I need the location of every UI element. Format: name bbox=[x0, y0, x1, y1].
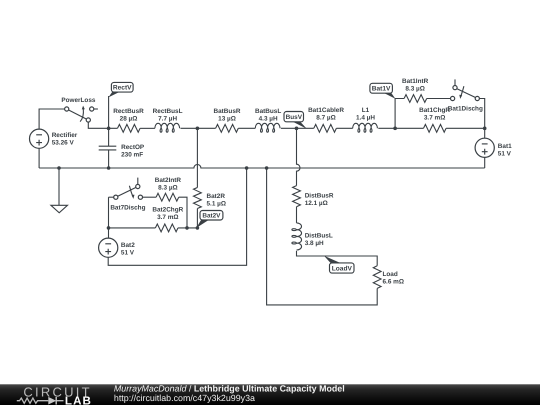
switch Bat7Dischg bbox=[109, 178, 146, 212]
footer url text bbox=[114, 393, 255, 403]
voltage source Rectifier 53.26 V bbox=[29, 129, 77, 148]
wire DistBus branch with hop over bus bbox=[297, 128, 301, 185]
wire Bat2 node down to Bat2 bbox=[108, 228, 110, 238]
svg-text:51 V: 51 V bbox=[121, 250, 135, 257]
CircuitLab logo wordmark bbox=[23, 384, 92, 405]
svg-text:BusV: BusV bbox=[286, 114, 303, 121]
probe flag LoadV bbox=[324, 256, 354, 273]
svg-text:28 µΩ: 28 µΩ bbox=[120, 116, 138, 123]
svg-text:Bat1IntR: Bat1IntR bbox=[402, 78, 429, 85]
svg-text:LoadV: LoadV bbox=[332, 265, 353, 272]
wire rectifier bottom to ground bus bbox=[38, 148, 40, 168]
voltage source Bat1 51 V bbox=[475, 138, 512, 157]
svg-text:Bat2V: Bat2V bbox=[202, 213, 221, 220]
resistor Bat1IntR 8.3 µΩ bbox=[402, 78, 429, 102]
node junctions on Bat2 charge row bbox=[107, 226, 200, 230]
wire rectifier top to PowerLoss bbox=[39, 109, 65, 129]
switch PowerLoss bbox=[61, 97, 98, 122]
svg-text:6.6 mΩ: 6.6 mΩ bbox=[383, 279, 404, 286]
wire Bat1Dischg to Bat1 node bbox=[479, 99, 484, 129]
resistor BatBusR 13 µΩ bbox=[214, 108, 241, 132]
svg-text:Bat1ChgR: Bat1ChgR bbox=[419, 107, 450, 114]
wire up to Bat1IntR row bbox=[395, 99, 404, 129]
node junction Bat1 top bbox=[483, 127, 487, 131]
node junction BusV / DistBusR top bbox=[295, 127, 299, 131]
probe flag RectV bbox=[108, 82, 133, 128]
svg-text:51 V: 51 V bbox=[498, 150, 512, 157]
wire Bat2 bottom loop to bus bbox=[108, 168, 246, 265]
resistor Bat2R 5.1 µΩ vertical bbox=[194, 128, 226, 228]
svg-text:Bat7Dischg: Bat7Dischg bbox=[110, 205, 145, 212]
wire Bat7Dischg left down to Bat2 node bbox=[108, 197, 110, 228]
svg-text:Bat2R: Bat2R bbox=[207, 193, 226, 200]
svg-text:PowerLoss: PowerLoss bbox=[61, 97, 96, 104]
wire RectBusL to Bat2R node bbox=[181, 127, 216, 129]
svg-text:Load: Load bbox=[383, 271, 398, 278]
wire Load bottom loop to bus bbox=[267, 168, 378, 305]
svg-text:BatBusL: BatBusL bbox=[255, 108, 281, 115]
wire Bat1ChgR to Bat1 bbox=[446, 127, 485, 129]
probe flag BusV bbox=[284, 112, 307, 129]
svg-text:Bat1V: Bat1V bbox=[372, 86, 391, 93]
svg-text:5.1 µΩ: 5.1 µΩ bbox=[207, 200, 226, 207]
node junction Bat1 branch bbox=[393, 127, 397, 131]
svg-text:7.7 µH: 7.7 µH bbox=[158, 116, 177, 123]
svg-text:RectOP: RectOP bbox=[121, 144, 145, 151]
capacitor RectOP 230 mF bbox=[99, 128, 145, 168]
svg-text:L1: L1 bbox=[362, 107, 370, 114]
voltage source Bat2 51 V bbox=[99, 238, 136, 257]
resistor RectBusR 28 µΩ bbox=[113, 108, 144, 132]
inductor RectBusL 7.7 µH bbox=[153, 108, 183, 132]
svg-text:RectBusL: RectBusL bbox=[153, 108, 183, 115]
svg-text:Bat2ChgR: Bat2ChgR bbox=[152, 207, 183, 214]
svg-text:BatBusR: BatBusR bbox=[214, 108, 241, 115]
ground bus wire with hop over Bat2R bbox=[39, 165, 485, 168]
svg-text:DistBusR: DistBusR bbox=[305, 192, 334, 199]
svg-text:Bat1CableR: Bat1CableR bbox=[308, 107, 344, 114]
resistor Bat2IntR 8.3 µΩ bbox=[143, 177, 188, 228]
node junction capacitor on bus bbox=[107, 166, 111, 170]
svg-text:230 mF: 230 mF bbox=[121, 152, 143, 159]
switch Bat1Dischg bbox=[448, 79, 483, 112]
wire BatBusL to BusV node bbox=[281, 127, 314, 129]
wire PowerLoss to main node bbox=[88, 122, 117, 128]
resistor Bat1CableR 8.7 µΩ bbox=[308, 107, 344, 132]
wire DistBusL to Load bbox=[297, 251, 378, 266]
node junction Bat2 loop on bus bbox=[245, 166, 249, 170]
svg-text:http://circuitlab.com/c47y3k2u: http://circuitlab.com/c47y3k2u99y3a bbox=[114, 393, 255, 403]
node junction RectV/cap on main line bbox=[107, 127, 111, 131]
svg-text:RectV: RectV bbox=[113, 85, 132, 92]
svg-text:Bat2: Bat2 bbox=[121, 242, 135, 249]
svg-text:8.7 µΩ: 8.7 µΩ bbox=[316, 115, 335, 122]
svg-text:Bat2IntR: Bat2IntR bbox=[155, 177, 182, 184]
node junction Load loop on bus bbox=[265, 166, 269, 170]
wire BatBusR to BatBusL bbox=[238, 127, 255, 129]
wire node to Bat1 bbox=[484, 128, 486, 138]
svg-text:Bat1Dischg: Bat1Dischg bbox=[448, 106, 483, 113]
svg-text:8.3 µΩ: 8.3 µΩ bbox=[158, 185, 177, 192]
svg-text:3.7 mΩ: 3.7 mΩ bbox=[157, 214, 178, 221]
CircuitLab logo resistor-diode glyph bbox=[17, 397, 64, 405]
svg-text:DistBusL: DistBusL bbox=[305, 232, 333, 239]
resistor Bat2ChgR 3.7 mΩ bbox=[109, 207, 198, 232]
footer author / title text bbox=[114, 384, 345, 394]
svg-text:4.3 µH: 4.3 µH bbox=[259, 116, 278, 123]
svg-text:Rectifier: Rectifier bbox=[52, 132, 78, 139]
probe flag Bat2V bbox=[196, 211, 223, 229]
resistor Load 6.6 mΩ vertical bbox=[373, 266, 404, 289]
svg-text:RectBusR: RectBusR bbox=[113, 108, 144, 115]
node junction ground tap bbox=[57, 166, 61, 170]
svg-text:3.8 µH: 3.8 µH bbox=[305, 240, 324, 247]
svg-text:Bat1: Bat1 bbox=[498, 143, 512, 150]
resistor DistBusR 12.1 µΩ vertical bbox=[293, 186, 334, 223]
inductor BatBusL 4.3 µH bbox=[255, 108, 281, 132]
probe flag Bat1V bbox=[370, 83, 396, 99]
inductor DistBusL 3.8 µH vertical bbox=[292, 223, 333, 250]
svg-text:LAB: LAB bbox=[65, 395, 92, 405]
wire RectBusR to RectBusL bbox=[140, 127, 155, 129]
svg-text:1.4 µH: 1.4 µH bbox=[356, 115, 375, 122]
wire Bat1IntR to Bat1Dischg bbox=[427, 98, 451, 100]
svg-text:3.7 mΩ: 3.7 mΩ bbox=[424, 115, 445, 122]
svg-text:53.26 V: 53.26 V bbox=[52, 140, 75, 147]
svg-text:13 µΩ: 13 µΩ bbox=[218, 116, 236, 123]
footer bar bbox=[0, 384, 540, 405]
svg-text:8.3 µΩ: 8.3 µΩ bbox=[405, 86, 424, 93]
resistor Bat1ChgR 3.7 mΩ bbox=[419, 107, 450, 132]
ground symbol bbox=[51, 205, 68, 213]
wire to ground bbox=[58, 168, 60, 205]
wire L1 to Bat1 branch node bbox=[378, 127, 423, 129]
wire Bat1 bottom to bus bbox=[484, 157, 486, 168]
wire Bat1CableR to L1 bbox=[336, 127, 352, 129]
node junction Bat2R top bbox=[196, 127, 200, 131]
svg-text:12.1 µΩ: 12.1 µΩ bbox=[305, 200, 328, 207]
inductor L1 1.4 µH bbox=[353, 107, 378, 132]
